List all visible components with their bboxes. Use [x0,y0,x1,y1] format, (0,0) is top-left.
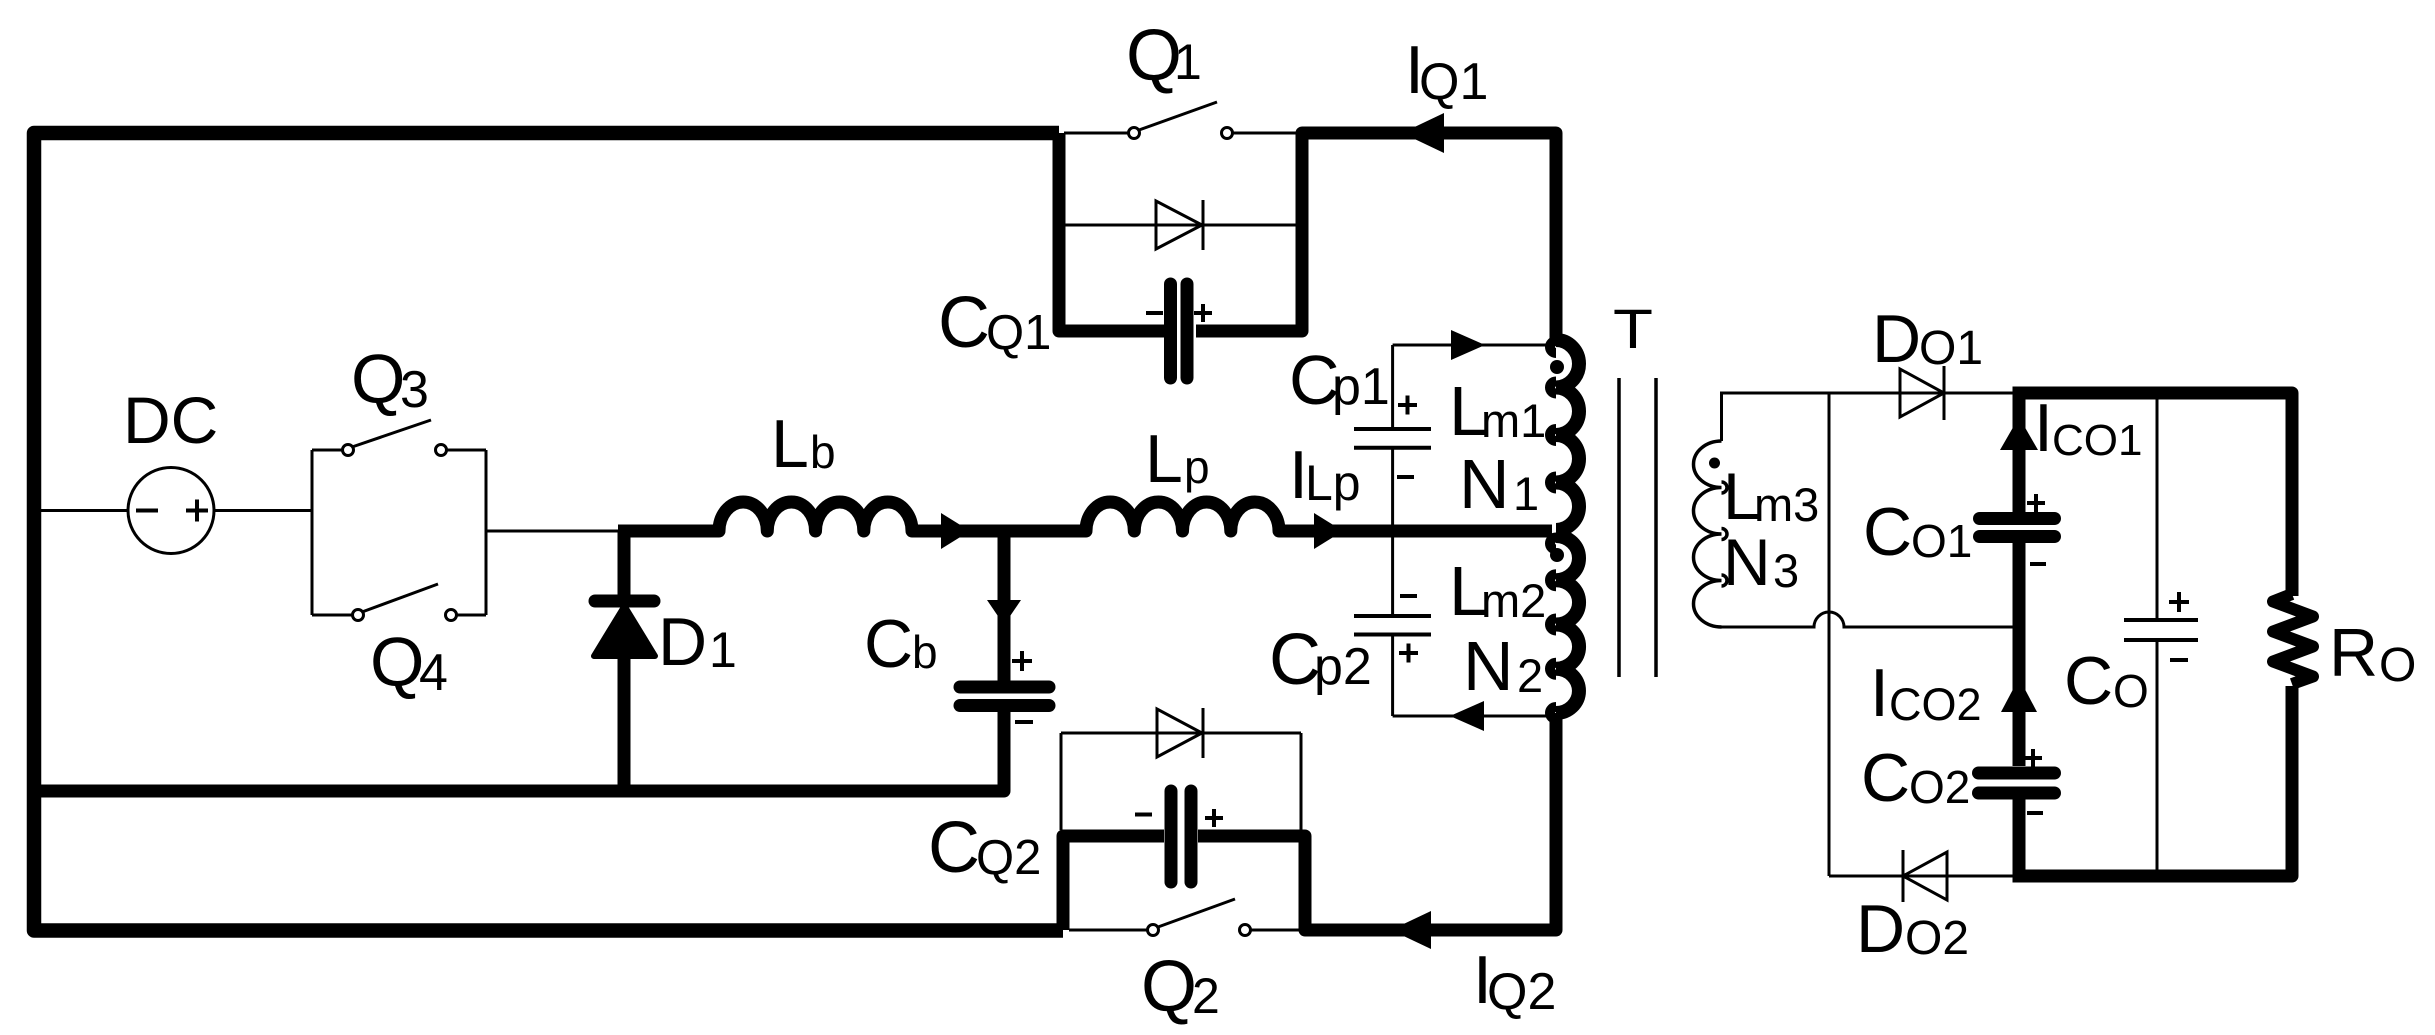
svg-text:Lp: Lp [1305,455,1361,511]
svg-text:m3: m3 [1754,478,1819,531]
svg-text:R: R [2329,615,2378,691]
svg-text:CO1: CO1 [2052,416,2142,465]
svg-text:C: C [928,808,980,888]
svg-text:N: N [1723,525,1771,599]
svg-text:p: p [1184,441,1210,493]
svg-text:1: 1 [1174,34,1202,90]
svg-text:C: C [938,283,990,363]
svg-text:4: 4 [419,644,448,702]
svg-text:D: D [658,604,707,680]
svg-text:O2: O2 [1905,912,1969,965]
svg-text:T: T [1613,297,1653,360]
svg-text:1: 1 [709,622,737,678]
svg-text:D: D [1856,891,1905,967]
svg-text:p1: p1 [1332,358,1390,416]
svg-text:Q2: Q2 [1487,963,1556,1021]
svg-text:Q: Q [351,340,405,418]
svg-text:CO2: CO2 [1889,679,1982,730]
svg-text:O1: O1 [1919,322,1983,375]
svg-text:C: C [2064,643,2113,719]
svg-text:2: 2 [1192,968,1220,1024]
svg-text:m2: m2 [1481,574,1546,627]
svg-text:p2: p2 [1314,638,1372,696]
svg-text:3: 3 [1773,544,1799,597]
svg-text:b: b [810,426,836,478]
svg-text:DC: DC [123,383,218,457]
svg-text:O: O [2379,639,2416,692]
svg-text:O1: O1 [1911,515,1972,567]
svg-text:I: I [2034,390,2053,466]
svg-text:Q: Q [370,623,424,701]
svg-text:L: L [771,406,809,482]
svg-text:b: b [912,626,938,678]
svg-text:O: O [2113,665,2149,717]
svg-text:Q2: Q2 [976,831,1041,885]
svg-text:Q: Q [1141,947,1197,1027]
svg-text:2: 2 [1517,649,1543,702]
svg-text:1: 1 [1513,467,1539,520]
svg-text:Q1: Q1 [1419,53,1488,111]
svg-text:L: L [1145,421,1183,497]
svg-text:I: I [1870,655,1889,731]
svg-text:C: C [864,606,913,682]
svg-text:N: N [1463,627,1514,705]
svg-text:D: D [1872,301,1921,377]
svg-text:C: C [1863,494,1912,570]
svg-text:O2: O2 [1909,761,1970,813]
svg-text:m1: m1 [1481,394,1546,447]
svg-text:Q1: Q1 [986,306,1051,360]
svg-text:3: 3 [400,361,429,419]
svg-text:N: N [1459,445,1510,523]
svg-text:C: C [1861,740,1910,816]
